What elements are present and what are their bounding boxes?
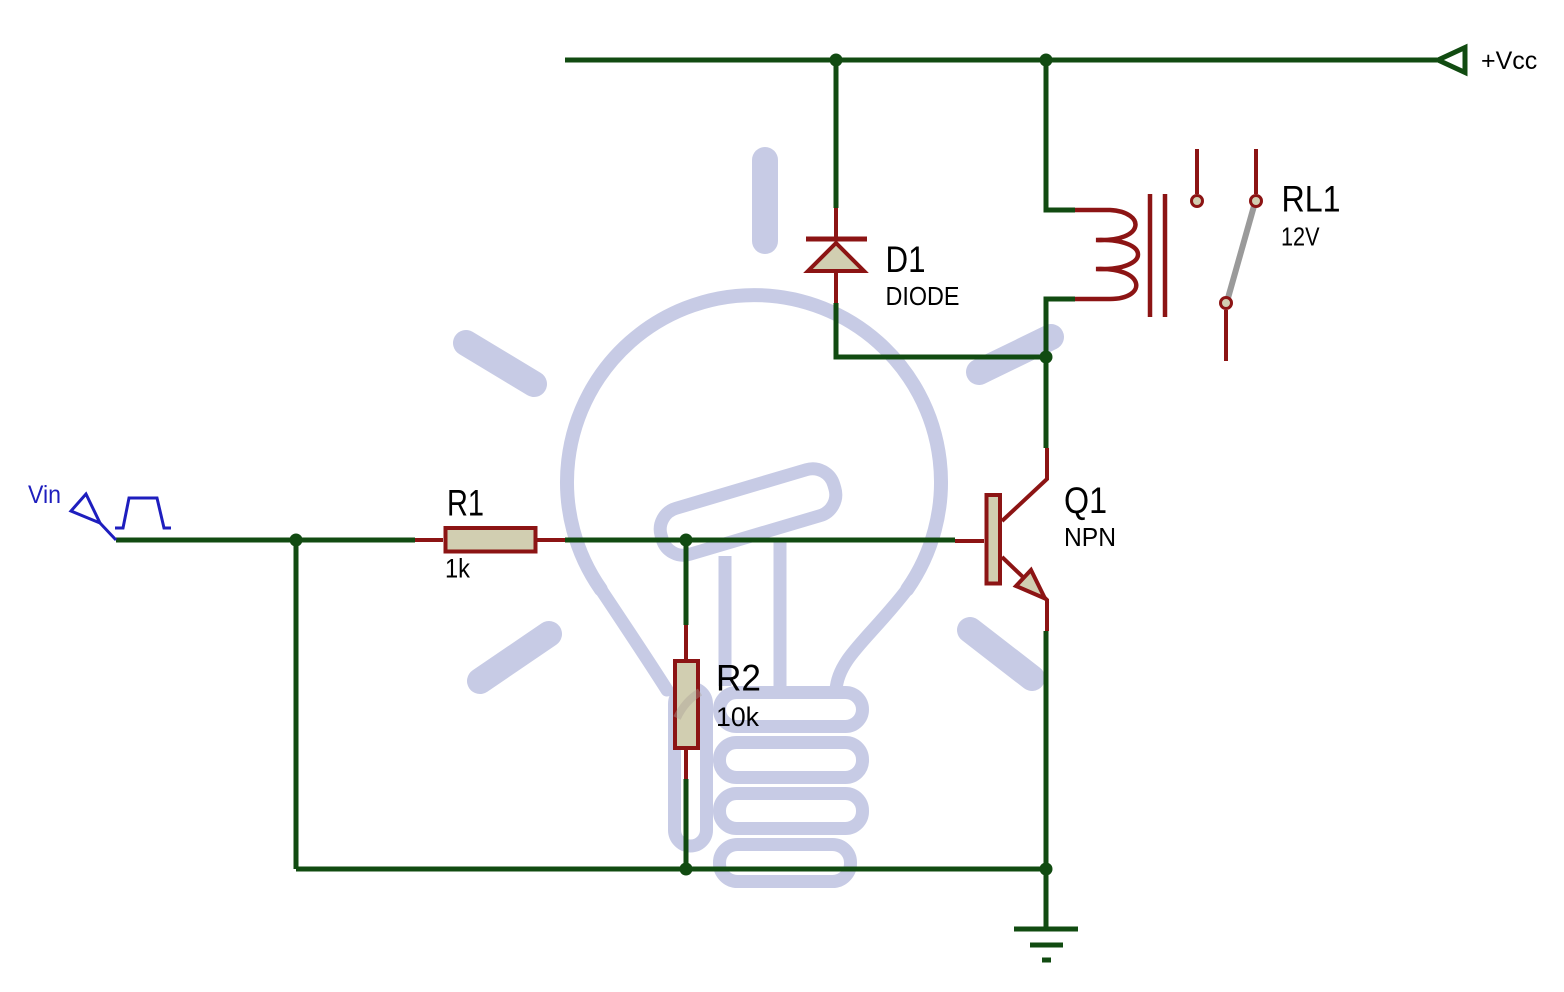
wire top rail [565, 58, 1437, 63]
svg-text:Vin: Vin [28, 481, 61, 509]
finger 3 [720, 794, 863, 829]
D1 cathode bar [806, 237, 867, 242]
node D1/collector [1040, 351, 1053, 364]
finger 4 [720, 845, 851, 882]
core line 2 [1163, 194, 1168, 317]
bulb neck right [836, 589, 907, 690]
svg-text:NPN: NPN [1064, 522, 1116, 552]
R2 body [675, 661, 698, 748]
collector pin [1002, 448, 1047, 521]
wire ground stem [1044, 869, 1049, 929]
finger 1 [720, 693, 863, 727]
+Vcc terminal [1438, 48, 1465, 73]
svg-text:R2: R2 [716, 658, 761, 699]
pulse waveform [115, 498, 171, 528]
ray upper-left [466, 343, 534, 384]
probe tail [100, 523, 116, 540]
wire R2 bottom [684, 779, 689, 869]
contact stub right [1254, 149, 1258, 194]
wire D1 bottom to node [836, 303, 1046, 357]
wire relay coil bottom to collector [1046, 299, 1075, 448]
node emitter/ground [1040, 863, 1053, 876]
svg-text:R1: R1 [447, 483, 484, 524]
core line 1 [1148, 194, 1153, 317]
svg-text:+Vcc: +Vcc [1481, 47, 1537, 75]
node top relay [1040, 54, 1053, 67]
ground bar 3 [1042, 958, 1051, 963]
emitter arrow [1016, 570, 1045, 599]
relay RL1 [1075, 149, 1341, 361]
wire R2 top [684, 540, 689, 625]
contact stub bottom [1224, 310, 1228, 361]
palm capsule [675, 688, 707, 846]
node Vin split [290, 534, 303, 547]
ray lower-left [480, 634, 549, 681]
R2 pin bottom [684, 750, 688, 779]
D1 cathode pin [834, 208, 838, 237]
watermark lightbulb logo [466, 160, 1051, 882]
base pin [955, 539, 984, 543]
hand stem left [719, 556, 732, 686]
transistor Q1 [955, 448, 1116, 631]
resistor R1 [415, 483, 565, 584]
svg-text:10k: 10k [716, 702, 759, 732]
ground [1014, 929, 1078, 960]
svg-text:Q1: Q1 [1064, 480, 1107, 521]
ray top [752, 160, 778, 241]
resistor R2 [675, 625, 761, 779]
contact stub left [1195, 149, 1199, 194]
probe triangle [71, 494, 100, 523]
bulb circle [567, 295, 941, 589]
wire emitter column [1044, 631, 1049, 869]
contact circle right [1251, 196, 1262, 207]
svg-text:RL1: RL1 [1282, 179, 1341, 220]
ground bar 1 [1014, 927, 1078, 932]
node base/R2 [680, 534, 693, 547]
wire left column [294, 540, 299, 869]
R1 body [446, 528, 536, 552]
ground bar 2 [1030, 943, 1063, 948]
Vin source [71, 494, 171, 540]
wire R1 to base [565, 538, 955, 543]
svg-text:1k: 1k [445, 554, 470, 584]
bulb neck left [601, 589, 667, 690]
node R2 bottom [680, 863, 693, 876]
thumb [655, 463, 841, 560]
R1 pin right [537, 538, 565, 542]
contact circle bottom [1221, 298, 1232, 309]
wire bottom rail [296, 867, 1046, 872]
switch arm [1228, 206, 1254, 298]
D1 anode pin [834, 273, 838, 303]
finger 2 [720, 743, 863, 778]
ray upper-right [979, 337, 1051, 372]
D1 triangle [808, 243, 864, 271]
base bar [987, 495, 1001, 584]
svg-text:12V: 12V [1281, 222, 1320, 252]
wire relay coil top [1046, 60, 1075, 210]
ray lower-right [970, 630, 1032, 678]
R2 pin top [684, 625, 688, 659]
hand stem right [774, 540, 787, 686]
node top D1 [830, 54, 843, 67]
coil [1075, 210, 1138, 299]
contact circle left [1192, 196, 1203, 207]
diode D1 [806, 208, 960, 311]
emitter pin [1002, 557, 1047, 631]
wire Vin to R1 [116, 538, 415, 543]
svg-text:D1: D1 [886, 239, 926, 280]
wire D1 top drop [834, 60, 839, 208]
R1 pin left [415, 538, 443, 542]
wires (green) [116, 60, 1437, 929]
svg-text:DIODE: DIODE [886, 281, 960, 311]
R2 body texture [677, 692, 700, 718]
